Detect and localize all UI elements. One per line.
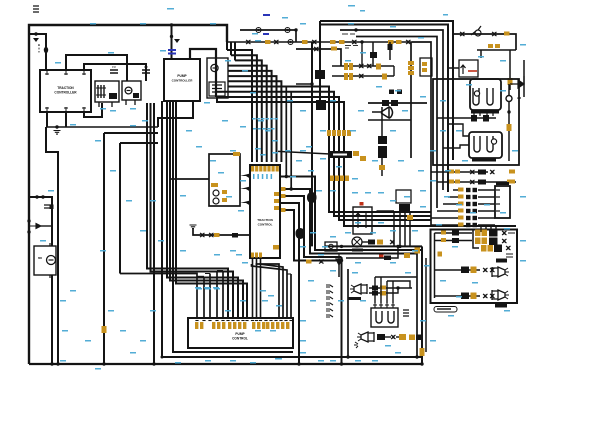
headlamp L2 — [492, 290, 505, 300]
wire number — [390, 200, 396, 202]
wire number — [472, 282, 478, 284]
wire — [368, 119, 411, 121]
pin — [327, 130, 331, 136]
pin — [276, 322, 279, 329]
contact — [388, 311, 394, 323]
relay box U6 — [209, 154, 240, 206]
pin — [272, 166, 275, 172]
wire fan 4 — [228, 66, 267, 162]
wire number — [262, 128, 266, 130]
wire number — [126, 200, 132, 202]
wire number — [267, 128, 271, 130]
wire number 13A — [252, 33, 258, 35]
pin label — [222, 198, 227, 202]
pin label — [404, 253, 410, 258]
wire — [205, 273, 210, 275]
wire number — [316, 190, 322, 192]
connector — [314, 47, 319, 51]
wire — [381, 107, 383, 136]
wire number — [230, 360, 236, 362]
wire number — [140, 23, 146, 25]
wire key feed to pump controller — [171, 25, 173, 59]
connector — [406, 40, 411, 44]
wire pc pin 11 — [256, 264, 280, 318]
wire — [448, 67, 459, 69]
fuse F1 label — [110, 70, 118, 73]
connector capsule CN5 — [296, 228, 306, 239]
wire number — [290, 176, 296, 178]
label text row — [345, 46, 358, 49]
relay K4 — [378, 146, 387, 158]
wire fan 6 — [228, 76, 277, 162]
wire number — [300, 23, 306, 25]
pins top — [480, 226, 482, 232]
node — [35, 195, 38, 198]
pin label — [458, 223, 464, 227]
wire — [51, 275, 53, 364]
wire number — [345, 232, 351, 234]
switch pins — [496, 189, 500, 191]
wire — [425, 258, 427, 352]
wire number — [242, 70, 248, 72]
wire to pump control pin 2 — [151, 103, 234, 318]
wire inner feed rail — [434, 233, 436, 298]
wire number — [158, 240, 164, 242]
horn button — [382, 100, 389, 106]
contact — [376, 311, 382, 323]
pin label — [281, 194, 286, 198]
svg-text:CONTROLLER: CONTROLLER — [172, 79, 194, 83]
headlamp L1 — [492, 267, 505, 277]
arrow — [356, 213, 367, 228]
wire — [385, 336, 391, 338]
wire — [480, 50, 482, 58]
wire — [409, 212, 411, 246]
wire — [399, 212, 401, 246]
connector — [200, 233, 205, 237]
wire number — [390, 262, 396, 264]
pin label — [302, 40, 308, 44]
wire number — [355, 360, 361, 362]
polarity marker — [33, 38, 39, 42]
connector block CN6 — [330, 151, 352, 158]
pin label — [376, 64, 381, 70]
connector — [274, 40, 279, 44]
wire number — [300, 150, 306, 152]
wire number — [322, 246, 328, 248]
wire number — [257, 118, 261, 120]
pin label — [475, 238, 481, 245]
wire number — [230, 250, 236, 252]
ground G3 — [225, 172, 232, 176]
node — [340, 259, 343, 262]
pin label — [482, 238, 488, 245]
note capsule — [434, 307, 457, 313]
wire number — [167, 8, 174, 10]
wire number — [242, 262, 248, 264]
pin label — [331, 47, 337, 51]
wire riser — [234, 42, 236, 60]
pin label — [509, 170, 515, 174]
wire number — [204, 287, 210, 289]
connector — [502, 231, 507, 235]
label — [508, 230, 515, 233]
connector pair — [466, 223, 471, 227]
wire number — [306, 146, 312, 148]
wire number — [180, 250, 186, 252]
pin label — [388, 40, 394, 44]
pin — [82, 70, 86, 75]
wire — [217, 270, 223, 272]
connector — [506, 246, 511, 250]
wire horn feed — [356, 37, 437, 209]
wire number — [62, 330, 68, 332]
wire meter minus — [431, 171, 488, 173]
wire number — [440, 130, 446, 132]
node — [340, 362, 343, 365]
relay U7 — [353, 207, 372, 234]
wire tc right 1 — [280, 177, 422, 251]
wire link — [473, 229, 479, 248]
relay U8 — [396, 190, 411, 203]
pin label — [475, 230, 481, 237]
pin — [347, 130, 351, 136]
wire number — [250, 362, 256, 364]
wire number — [395, 352, 401, 354]
wire number — [100, 250, 106, 252]
pump control card U10 — [188, 318, 293, 348]
wire number — [456, 204, 462, 206]
pump contactor K3 — [207, 58, 228, 98]
connector block — [232, 233, 238, 238]
wire number — [260, 290, 266, 292]
connector pair — [466, 209, 471, 213]
wire fan 3 — [235, 60, 262, 162]
wire hour meter feed — [320, 25, 448, 193]
label wire 12 — [168, 49, 176, 51]
lamp panel box — [431, 230, 518, 304]
wire marker feed A — [435, 232, 473, 234]
pin label — [233, 152, 240, 156]
pin — [222, 322, 225, 329]
wire number — [378, 192, 384, 194]
fuse label — [408, 71, 414, 75]
wire number — [330, 190, 336, 192]
wire number — [484, 204, 490, 206]
wire number — [230, 150, 236, 152]
wire — [478, 224, 495, 226]
wire — [478, 189, 495, 191]
wire to relay — [443, 145, 469, 148]
wire pump control pin 7 — [203, 277, 205, 319]
connector — [352, 40, 357, 44]
contactor RV K2 — [122, 81, 141, 100]
wire number — [310, 300, 316, 302]
svg-text:TRACTION: TRACTION — [257, 218, 273, 222]
connector pair — [466, 216, 471, 220]
pin label — [409, 335, 415, 341]
resistor R3 — [403, 310, 409, 316]
svg-text:HM: HM — [517, 96, 521, 100]
red link wire — [468, 70, 477, 72]
wire horn — [368, 102, 427, 104]
pin label — [458, 209, 464, 213]
pin label — [339, 40, 345, 44]
wire — [477, 49, 516, 51]
wire — [369, 288, 398, 293]
wire to connector CN6 — [278, 151, 330, 154]
wire meter feed — [509, 50, 511, 90]
wire fan 1 — [227, 50, 252, 162]
wire number — [424, 265, 430, 267]
pin label — [349, 73, 353, 80]
pin label — [507, 124, 512, 131]
wire number — [436, 224, 442, 226]
wire number — [352, 178, 358, 180]
connector block — [416, 335, 422, 341]
wire key switch line — [453, 34, 516, 50]
relay U4 hour meter relay — [469, 132, 502, 158]
wire number — [420, 320, 426, 322]
wire — [346, 246, 398, 258]
pin label — [481, 245, 487, 252]
wire — [387, 281, 410, 288]
red terminal — [379, 255, 384, 259]
wire to ground bus — [341, 257, 343, 364]
svg-text:PUMP: PUMP — [235, 332, 245, 336]
wire number — [270, 330, 276, 332]
pin label — [102, 326, 107, 333]
wire number — [470, 212, 476, 214]
wire number — [365, 192, 371, 194]
wire number — [226, 196, 232, 198]
fuse F2 — [253, 28, 264, 33]
connector block — [461, 293, 469, 300]
connector — [470, 170, 475, 174]
slit — [333, 154, 347, 156]
wire number — [204, 102, 210, 104]
wire number — [430, 180, 436, 182]
wire number — [142, 120, 148, 122]
pin label — [508, 78, 513, 85]
wire number — [308, 170, 314, 172]
node — [170, 35, 173, 38]
wire — [478, 203, 495, 205]
node — [297, 362, 300, 365]
coil terminal — [474, 91, 479, 96]
connector CN1 — [246, 40, 251, 44]
connector — [460, 32, 465, 36]
wire to pump control pin 3 — [167, 101, 238, 318]
wire number — [196, 146, 202, 148]
wire number — [140, 340, 146, 342]
connector — [490, 268, 495, 272]
pin label — [458, 202, 464, 206]
wire riser — [230, 42, 232, 55]
fuse label — [422, 62, 427, 66]
pin — [200, 322, 203, 329]
wire lighting branch — [296, 49, 341, 66]
pin label — [504, 32, 510, 36]
wire — [65, 112, 67, 127]
pin — [233, 322, 236, 329]
wire number — [222, 120, 228, 122]
wire number — [300, 110, 306, 112]
connector — [359, 64, 364, 68]
wire number — [196, 288, 202, 290]
wire number — [355, 222, 361, 224]
connector block — [478, 170, 486, 175]
wire — [393, 66, 395, 76]
wire aux circuit a — [332, 65, 394, 67]
pin label 5 — [265, 40, 271, 44]
wire number — [276, 358, 282, 360]
wire number — [287, 100, 293, 102]
node — [340, 245, 343, 248]
connector — [359, 74, 364, 78]
wire fan 7 — [228, 81, 281, 162]
pin label — [353, 151, 359, 156]
pin — [255, 253, 258, 258]
wire number — [268, 295, 274, 297]
wire number — [378, 222, 384, 224]
pin label — [380, 286, 386, 290]
coil — [213, 198, 219, 204]
pin — [337, 130, 341, 136]
wire — [416, 254, 418, 358]
pin label — [273, 245, 279, 250]
pin label — [441, 231, 446, 235]
wire number — [320, 130, 326, 132]
wire lighting feed — [340, 30, 443, 190]
connector block — [452, 238, 459, 243]
wire number — [271, 128, 275, 130]
wire pump control pin 9 — [216, 271, 218, 319]
wire controller to contactor RV — [84, 64, 146, 81]
wire drop — [285, 87, 287, 177]
wire number — [310, 232, 316, 234]
wire — [338, 265, 340, 277]
traction control card U5 — [250, 165, 280, 258]
wire number — [352, 192, 358, 194]
node — [420, 362, 423, 365]
wire ground bus — [29, 363, 422, 365]
node — [27, 219, 30, 222]
wire number — [60, 300, 66, 302]
fuse F5 — [44, 205, 51, 208]
wire number — [520, 260, 526, 262]
wire flasher bus — [325, 245, 422, 247]
wire number — [500, 212, 506, 214]
wire accessory feed row — [227, 41, 412, 43]
contact — [474, 136, 480, 152]
wire number — [130, 108, 136, 110]
wire — [296, 83, 312, 85]
wire number — [338, 300, 344, 302]
pin label — [344, 73, 348, 80]
wire number — [412, 230, 418, 232]
wire — [375, 276, 417, 278]
wire number — [282, 17, 288, 19]
wire number — [390, 230, 396, 232]
wire number — [404, 196, 410, 198]
connector cluster — [474, 110, 493, 116]
pin — [345, 176, 349, 182]
coil — [213, 190, 219, 196]
wire number — [462, 160, 468, 162]
rays — [354, 342, 358, 348]
wire number — [318, 254, 324, 256]
wire number — [272, 152, 278, 154]
pin — [238, 322, 241, 329]
pin — [45, 70, 49, 75]
wire — [386, 281, 388, 303]
connector A1 — [44, 47, 48, 53]
label bar — [495, 304, 507, 308]
wire — [341, 261, 343, 365]
connector pair — [466, 188, 471, 192]
wire number — [512, 150, 518, 152]
connector block — [452, 231, 459, 236]
wire number — [205, 360, 211, 362]
label — [263, 33, 269, 35]
node — [102, 362, 105, 365]
wire number — [300, 246, 306, 248]
wire number — [214, 254, 220, 256]
pins — [195, 320, 198, 322]
wire number — [376, 86, 382, 88]
pin label — [360, 156, 366, 161]
pin — [276, 166, 279, 172]
connector block — [388, 44, 393, 50]
wire tc right 5 — [280, 210, 342, 261]
pin label — [281, 208, 286, 212]
wire number — [240, 180, 246, 182]
ground G2 — [190, 225, 197, 229]
pin — [330, 176, 334, 182]
wire battery meter feed — [29, 197, 52, 246]
wire meter signal — [437, 181, 516, 183]
fuse body — [50, 205, 54, 210]
connector block — [478, 180, 486, 185]
pin label — [274, 199, 279, 203]
connector — [483, 294, 488, 298]
pin label — [488, 44, 493, 48]
pin label — [455, 170, 460, 174]
wire light switch row 1 — [453, 189, 458, 191]
wire to pump control pin 1 — [147, 103, 228, 318]
wire number — [320, 158, 326, 160]
instrument box outline — [433, 79, 519, 165]
pins top — [373, 303, 377, 308]
connector block — [372, 286, 378, 291]
pin label — [507, 180, 513, 184]
coil — [125, 87, 132, 94]
wire number — [296, 160, 302, 162]
pin — [217, 322, 220, 329]
wire traction negative to bus — [103, 133, 105, 364]
key switch S1 — [475, 30, 481, 36]
node top bus — [170, 23, 173, 26]
wire — [347, 269, 349, 357]
ignition switch S2 — [352, 237, 362, 247]
wire number — [443, 14, 448, 16]
svg-text:CONTROLLER: CONTROLLER — [54, 91, 77, 95]
wire number — [448, 315, 454, 317]
wire sensor — [193, 229, 250, 235]
fuse F3 — [282, 28, 293, 33]
wire enable — [169, 178, 240, 180]
